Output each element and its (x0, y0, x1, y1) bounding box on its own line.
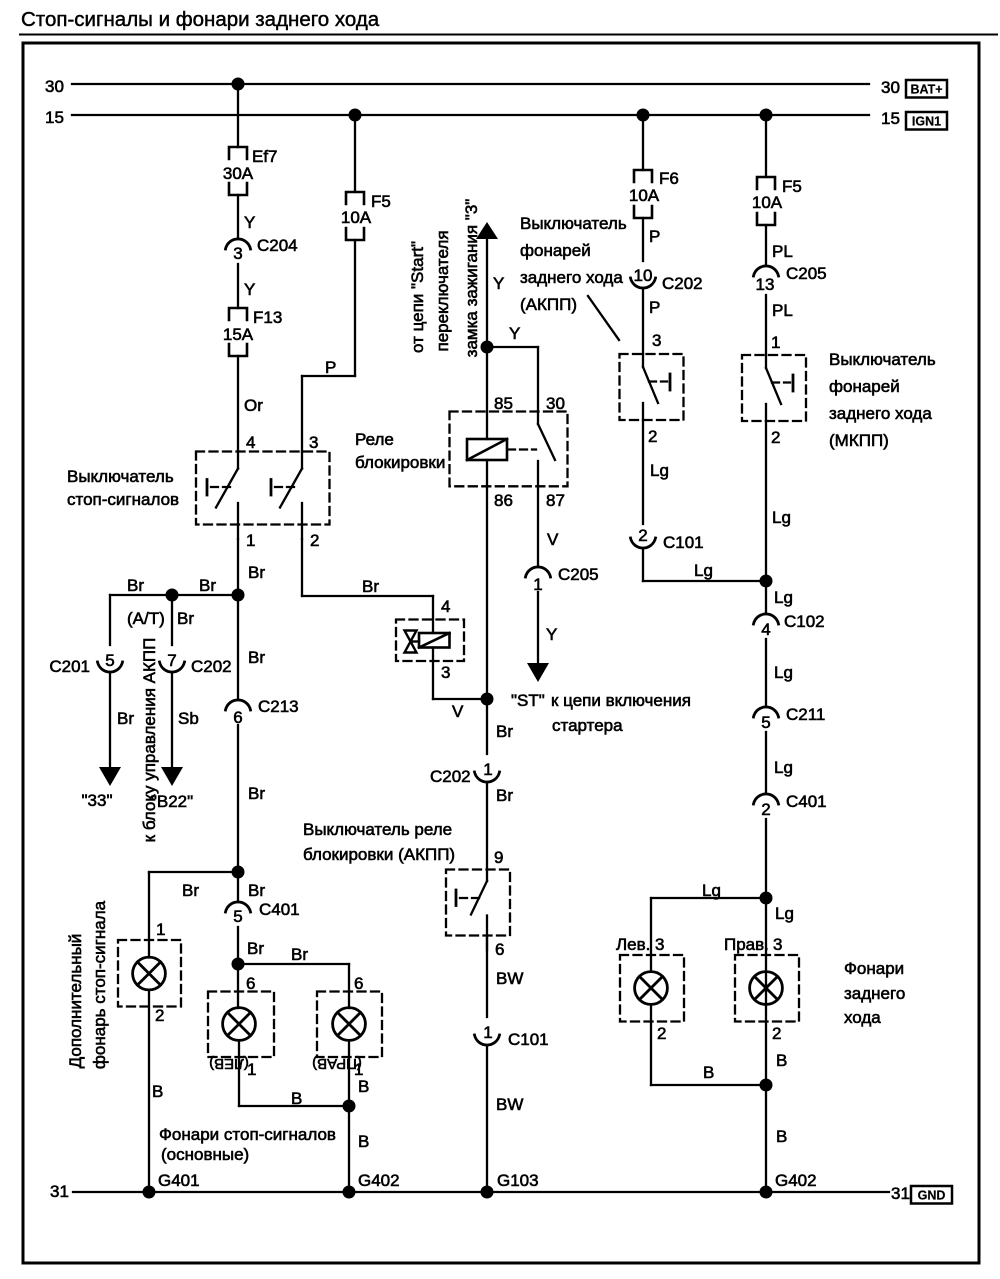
svg-text:1: 1 (156, 920, 165, 939)
svg-text:Lg: Lg (650, 461, 669, 480)
svg-text:Br: Br (496, 722, 513, 741)
wire PL C205 to reverse switch MT pin 1 (766, 295, 793, 355)
svg-text:Y: Y (546, 625, 557, 644)
wire Lg C101 to MT column junction (643, 549, 766, 581)
wire Br stop switch pin 2 to solenoid (302, 539, 433, 596)
svg-text:C101: C101 (508, 1030, 549, 1049)
svg-text:C202: C202 (430, 767, 471, 786)
svg-text:P: P (649, 298, 660, 317)
wire Br junction to C213 (238, 595, 265, 699)
svg-text:(МКПП): (МКПП) (829, 431, 889, 450)
svg-text:Br: Br (177, 609, 194, 628)
node junction Y relay (481, 341, 494, 354)
fuse F5 10A (right) (752, 177, 802, 225)
svg-text:Br: Br (248, 648, 265, 667)
svg-text:P: P (325, 358, 336, 377)
wire Lg C211 to C401 (766, 732, 793, 793)
wire BW switch to C101 (487, 936, 523, 1018)
connector C101 pin 1 (475, 1023, 549, 1049)
stop lamp switch box (Выключатель стоп-сигналов) (196, 452, 330, 525)
solenoid diode symbol (405, 631, 420, 653)
svg-text:2: 2 (310, 531, 319, 550)
svg-text:C211: C211 (786, 705, 825, 724)
relay pin labels 85 30 86 87 (494, 394, 565, 510)
fuse F5 10A (left) (341, 192, 391, 240)
svg-text:V: V (547, 530, 559, 549)
wire Y start circuit down (487, 239, 504, 439)
label Фонари заднего хода (844, 959, 905, 1027)
svg-text:30: 30 (881, 78, 900, 97)
svg-text:P: P (649, 227, 660, 246)
reverse switch AT contact 3-2 (643, 354, 670, 420)
wire Lg MT switch pin 2 down (766, 421, 793, 613)
svg-text:30: 30 (45, 77, 64, 96)
wire Lg branch to left reverse lamp (651, 881, 766, 972)
svg-text:Br: Br (496, 786, 513, 805)
wire Y fuse Ef7 to C204 (238, 195, 255, 238)
svg-text:2: 2 (657, 1024, 666, 1043)
node bus15 junction F5 left (349, 109, 362, 122)
reverse switch MT contact 1-2 (766, 355, 793, 421)
svg-text:31: 31 (891, 1184, 910, 1203)
label Прав. 3 (724, 935, 782, 954)
svg-text:В: В (291, 1089, 302, 1108)
svg-text:BW: BW (496, 969, 523, 988)
svg-text:(АКПП): (АКПП) (520, 295, 577, 314)
svg-text:1: 1 (246, 531, 255, 550)
svg-text:Lg: Lg (774, 663, 793, 682)
relay lock switch contact 9-6 (456, 870, 504, 960)
connector C201 pin 5 (49, 651, 122, 676)
wire P F6 to C202 (643, 218, 660, 261)
wire to C201 (109, 595, 111, 645)
svg-text:Br: Br (248, 784, 265, 803)
wire PL F5 to C205 (766, 225, 793, 265)
callout line to AT switch (588, 296, 619, 340)
svg-text:"ST": "ST" (511, 691, 545, 710)
connector C213 pin 6 (226, 697, 299, 727)
label Выключатель фонарей заднего хода (АКПП) (520, 214, 627, 314)
wire Br C401 to stop lamps (238, 927, 264, 1008)
svg-text:10A: 10A (341, 208, 372, 227)
svg-text:Лев.: Лев. (616, 935, 650, 954)
svg-text:C205: C205 (786, 264, 827, 283)
left reverse lamp (635, 972, 668, 1005)
svg-text:В: В (776, 1051, 787, 1070)
fuse Ef7 30A (223, 147, 278, 195)
connector C205 pin 1 (526, 565, 599, 594)
svg-text:PL: PL (772, 242, 793, 261)
label (ПРАВ) 1 (312, 1055, 363, 1079)
svg-text:7: 7 (167, 651, 176, 670)
right stop lamp box (317, 992, 382, 1058)
svg-text:Lg: Lg (774, 588, 793, 607)
svg-text:87: 87 (546, 491, 565, 510)
svg-text:2: 2 (772, 1024, 781, 1043)
svg-text:заднего: заднего (844, 984, 905, 1003)
svg-text:Br: Br (247, 939, 264, 958)
svg-text:Дополнительный: Дополнительный (66, 934, 85, 1069)
svg-text:30A: 30A (223, 164, 254, 183)
svg-text:от цепи "Start": от цепи "Start" (408, 241, 427, 353)
additional stop lamp box (118, 940, 181, 1007)
svg-text:В: В (776, 1127, 787, 1146)
svg-text:3: 3 (233, 244, 242, 263)
svg-text:фонарь стоп-сигнала: фонарь стоп-сигнала (90, 900, 109, 1069)
svg-text:6: 6 (354, 974, 363, 993)
svg-text:C202: C202 (662, 274, 703, 293)
wire B right reverse lamp labels (772, 1024, 787, 1146)
svg-text:В: В (152, 1082, 163, 1101)
svg-text:(ЛЕВ): (ЛЕВ) (209, 1055, 249, 1072)
IGN1 box (906, 112, 947, 130)
wire B left reverse lamp to junction (651, 1004, 766, 1085)
svg-text:Y: Y (493, 274, 504, 293)
svg-text:Sb: Sb (178, 709, 199, 728)
label Выключатель фонарей заднего хода (МКПП) (829, 350, 936, 450)
bus 31 (GND) (50, 1182, 910, 1203)
right reverse lamp (750, 972, 783, 1005)
left stop lamp box (208, 992, 274, 1058)
node bus30 junction (232, 78, 245, 91)
svg-text:15: 15 (881, 109, 900, 128)
left stop lamp (LEV) (223, 1008, 256, 1041)
svg-text:31: 31 (50, 1182, 69, 1201)
connector C202 pin 1 (430, 760, 500, 786)
svg-text:2: 2 (761, 800, 770, 819)
svg-text:Реле: Реле (355, 430, 394, 449)
label Лев. 3 (616, 935, 664, 954)
svg-text:блокировки (АКПП): блокировки (АКПП) (303, 845, 455, 864)
wire V relay 87 to C205 (538, 486, 559, 566)
svg-text:15A: 15A (223, 325, 254, 344)
svg-text:6: 6 (246, 974, 255, 993)
bus 15 (IGN1) (45, 108, 900, 128)
svg-text:C102: C102 (784, 612, 825, 631)
svg-text:10A: 10A (629, 186, 660, 205)
node junction stop lamps (232, 958, 245, 971)
svg-text:C201: C201 (49, 657, 90, 676)
wire B left stop lamp to junction (239, 1041, 349, 1109)
wire Br C202 to relay switch pin 9 (487, 783, 513, 870)
svg-text:5: 5 (761, 713, 770, 732)
svg-text:2: 2 (638, 526, 647, 545)
wire Br C201 to arrow (110, 673, 134, 768)
svg-text:Выключатель: Выключатель (829, 350, 936, 369)
svg-text:(А/Т): (А/Т) (127, 609, 165, 628)
GND box (911, 1186, 952, 1204)
wire bus15 to fuse F5 (354, 115, 356, 192)
label от цепи Start переключателя замка зажигания "3" (408, 199, 481, 358)
svg-text:Br: Br (362, 577, 379, 596)
svg-text:2: 2 (771, 428, 780, 447)
svg-text:6: 6 (495, 940, 504, 959)
svg-text:Lg: Lg (774, 758, 793, 777)
wire Y branch to relay pin 30 (487, 324, 538, 412)
svg-text:к цепи включения: к цепи включения (551, 691, 691, 710)
svg-text:Фонари стоп-сигналов: Фонари стоп-сигналов (159, 1125, 336, 1144)
svg-text:4: 4 (761, 620, 770, 639)
wire V solenoid pin 3 to junction (433, 648, 487, 722)
left reverse lamp box (620, 955, 684, 1022)
svg-text:(основные): (основные) (161, 1145, 249, 1164)
svg-text:фонарей: фонарей (829, 377, 900, 396)
svg-text:3: 3 (655, 935, 664, 954)
relay coil-contact dashed link (508, 448, 536, 450)
svg-text:Lg: Lg (694, 561, 713, 580)
svg-text:5: 5 (105, 651, 114, 670)
node bus15 junction F6 (637, 109, 650, 122)
svg-text:3: 3 (773, 935, 782, 954)
svg-text:Фонари: Фонари (844, 959, 904, 978)
svg-text:G402: G402 (775, 1171, 817, 1190)
svg-text:Y: Y (509, 324, 520, 343)
wire BW C101 to G103 (487, 1046, 523, 1192)
wire branch to additional stop lamp (149, 872, 265, 900)
fuse F13 15A (223, 308, 282, 356)
svg-text:В: В (358, 1132, 369, 1151)
relay lock switch box (Выключатель реле блокировки АКПП) (446, 870, 510, 936)
svg-text:85: 85 (494, 394, 513, 413)
svg-text:G401: G401 (158, 1171, 200, 1190)
wire solenoid pin 4 (433, 596, 450, 633)
wire to C202 pin 7 (171, 595, 173, 645)
svg-text:к блоку управления АКПП: к блоку управления АКПП (140, 638, 159, 843)
wire Sb C202 to arrow (172, 673, 199, 768)
svg-text:BAT+: BAT+ (910, 83, 942, 97)
connector C204 pin 3 (226, 236, 298, 263)
svg-text:Br: Br (127, 576, 144, 595)
svg-text:Br: Br (248, 563, 265, 582)
svg-text:4: 4 (441, 597, 450, 616)
node junction A/T branch (166, 589, 179, 602)
connector C211 pin 5 (754, 705, 826, 732)
svg-text:Y: Y (244, 280, 255, 299)
wire Br branch to right stop lamp (238, 945, 363, 1008)
node bus15 junction F5 right (760, 109, 773, 122)
relay coil U1 (467, 439, 507, 460)
connector C205 pin 13 (754, 264, 827, 294)
node junction V solenoid (481, 693, 494, 706)
svg-text:Выключатель реле: Выключатель реле (303, 820, 452, 839)
svg-text:Br: Br (117, 709, 134, 728)
svg-text:V: V (452, 702, 464, 721)
svg-text:заднего хода: заднего хода (829, 404, 932, 423)
svg-text:стоп-сигналов: стоп-сигналов (67, 490, 179, 509)
svg-text:5: 5 (233, 907, 242, 926)
reverse switch MT box (742, 355, 806, 421)
node G402 left (343, 1171, 400, 1199)
connector C102 pin 4 (754, 612, 825, 639)
svg-text:C101: C101 (663, 533, 704, 552)
title (21, 8, 380, 31)
wire Lg C401 down to reverse lamps (766, 819, 794, 1192)
svg-text:C205: C205 (558, 565, 599, 584)
svg-text:10: 10 (634, 266, 653, 285)
svg-text:Y: Y (244, 213, 255, 232)
wire Lg C102 to C211 (766, 639, 793, 706)
relay contact 30-87 (538, 412, 555, 487)
label (A/T) (127, 609, 194, 628)
svg-text:замка зажигания "3": замка зажигания "3" (462, 199, 481, 358)
wire Br horizontal branch to C201/C202 (110, 576, 238, 595)
svg-text:Lg: Lg (772, 508, 791, 527)
svg-text:Прав.: Прав. (724, 935, 769, 954)
arrow to "B22" (151, 767, 193, 811)
svg-text:Выключатель: Выключатель (520, 214, 627, 233)
svg-text:BW: BW (496, 1095, 523, 1114)
svg-text:F5: F5 (371, 192, 391, 211)
additional stop lamp (133, 957, 166, 990)
svg-text:GND: GND (918, 1189, 946, 1203)
svg-text:Or: Or (244, 396, 263, 415)
svg-text:C401: C401 (786, 792, 827, 811)
fuse F6 10A (629, 169, 679, 218)
wire B additional lamp pin 2 to G401 (149, 990, 164, 1192)
label Дополнительный фонарь стоп-сигнала (66, 900, 109, 1069)
svg-text:блокировки: блокировки (355, 453, 445, 472)
node junction to additional stop lamp (232, 866, 245, 879)
wire Y C205 to starter arrow (538, 592, 557, 664)
arrow ST to starter circuit (511, 663, 691, 735)
node junction main Br (232, 589, 245, 602)
right reverse lamp box (735, 955, 799, 1022)
wire bus15 to fuse F6 (642, 115, 644, 170)
svg-text:В: В (358, 1077, 369, 1096)
svg-text:IGN1: IGN1 (912, 115, 941, 129)
svg-text:9: 9 (494, 848, 503, 867)
wire P fuse F5 to stop switch pin 3 (302, 240, 355, 452)
svg-text:"33": "33" (82, 791, 113, 810)
wire bus15 to fuse F5 right (765, 115, 767, 177)
svg-text:4: 4 (246, 433, 255, 452)
svg-text:PL: PL (772, 301, 793, 320)
svg-text:15: 15 (45, 108, 64, 127)
arrow from Start circuit (476, 222, 498, 239)
svg-text:фонарей: фонарей (520, 241, 591, 260)
solenoid coil (419, 633, 450, 648)
label Фонари стоп-сигналов (основные) (159, 1125, 336, 1164)
svg-text:3: 3 (652, 331, 661, 350)
wire bus30 to fuse Ef7 (237, 84, 239, 147)
node G401 (143, 1171, 200, 1199)
svg-text:13: 13 (756, 275, 775, 294)
svg-text:G103: G103 (497, 1171, 539, 1190)
svg-text:30: 30 (546, 394, 565, 413)
title underline (20, 34, 997, 36)
connector C202 pin 10 (631, 266, 703, 293)
shift lock solenoid box (396, 620, 464, 662)
svg-text:хода: хода (844, 1008, 881, 1027)
svg-text:2: 2 (155, 1006, 164, 1025)
wire into additional lamp pin 1 (149, 872, 165, 958)
label (ЛЕВ) 1 (209, 1055, 256, 1079)
svg-text:Ef7: Ef7 (252, 147, 278, 166)
svg-text:Br: Br (199, 576, 216, 595)
wire Br stop switch pin1 down (238, 539, 265, 595)
stop switch contact 3-2 (271, 433, 319, 550)
node junction Lg (760, 575, 773, 588)
svg-text:Br: Br (248, 881, 265, 900)
relay box (Реле блокировки) (450, 412, 568, 487)
svg-text:3: 3 (441, 663, 450, 682)
wire Br C213 down (238, 725, 265, 901)
svg-text:86: 86 (494, 491, 513, 510)
svg-text:C202: C202 (191, 657, 232, 676)
svg-text:Lg: Lg (775, 904, 794, 923)
svg-text:F6: F6 (659, 169, 679, 188)
connector C401 pin 2 (754, 792, 827, 819)
node G103 (481, 1171, 539, 1199)
svg-text:стартера: стартера (552, 716, 623, 735)
vertical label к блоку управления АКПП (140, 638, 159, 843)
BAT+ box (906, 80, 947, 98)
svg-text:Br: Br (291, 945, 308, 964)
bus 30 (BAT+) (45, 77, 900, 97)
svg-text:F13: F13 (253, 308, 282, 327)
right stop lamp (PRAV) (333, 1008, 366, 1041)
arrow to "33" (82, 767, 121, 810)
wire Or F13 to stop switch pin 4 (238, 356, 263, 452)
node stop lamps join (343, 1100, 356, 1113)
svg-text:1: 1 (771, 333, 780, 352)
svg-text:Lg: Lg (702, 881, 721, 900)
svg-text:G402: G402 (358, 1171, 400, 1190)
svg-text:F5: F5 (782, 177, 802, 196)
node G402 right (760, 1171, 817, 1199)
wire Y C204 to fuse F13 (238, 264, 255, 308)
connector C202 pin 7 (160, 651, 232, 676)
svg-text:Стоп-сигналы и фонари заднего: Стоп-сигналы и фонари заднего хода (21, 8, 380, 31)
svg-text:Br: Br (182, 881, 199, 900)
svg-text:2: 2 (648, 427, 657, 446)
svg-text:1: 1 (247, 1060, 256, 1079)
svg-text:3: 3 (309, 433, 318, 452)
svg-text:1: 1 (483, 1023, 492, 1042)
svg-text:C213: C213 (258, 697, 299, 716)
svg-text:заднего хода: заднего хода (520, 268, 623, 287)
wire Lg AT switch pin 2 to C101 (643, 420, 669, 524)
svg-text:C401: C401 (259, 900, 300, 919)
wire relay coil 86 down (487, 460, 513, 754)
svg-text:C204: C204 (257, 236, 298, 255)
svg-text:В: В (703, 1063, 714, 1082)
svg-text:Выключатель: Выключатель (67, 467, 174, 486)
wire P C202 to reverse switch AT pin 3 (643, 289, 661, 354)
connector C401 pin 5 (226, 900, 300, 926)
svg-text:10A: 10A (752, 193, 783, 212)
node junction reverse lamps top (760, 892, 773, 905)
wire B right stop lamp down (349, 1041, 369, 1193)
connector C101 pin 2 (631, 526, 704, 552)
reverse switch AT box (620, 354, 684, 420)
svg-text:переключателя: переключателя (433, 230, 452, 351)
stop switch contact 4-1 (207, 452, 255, 551)
node junction reverse lamps bottom (760, 1079, 773, 1092)
svg-text:1: 1 (483, 760, 492, 779)
